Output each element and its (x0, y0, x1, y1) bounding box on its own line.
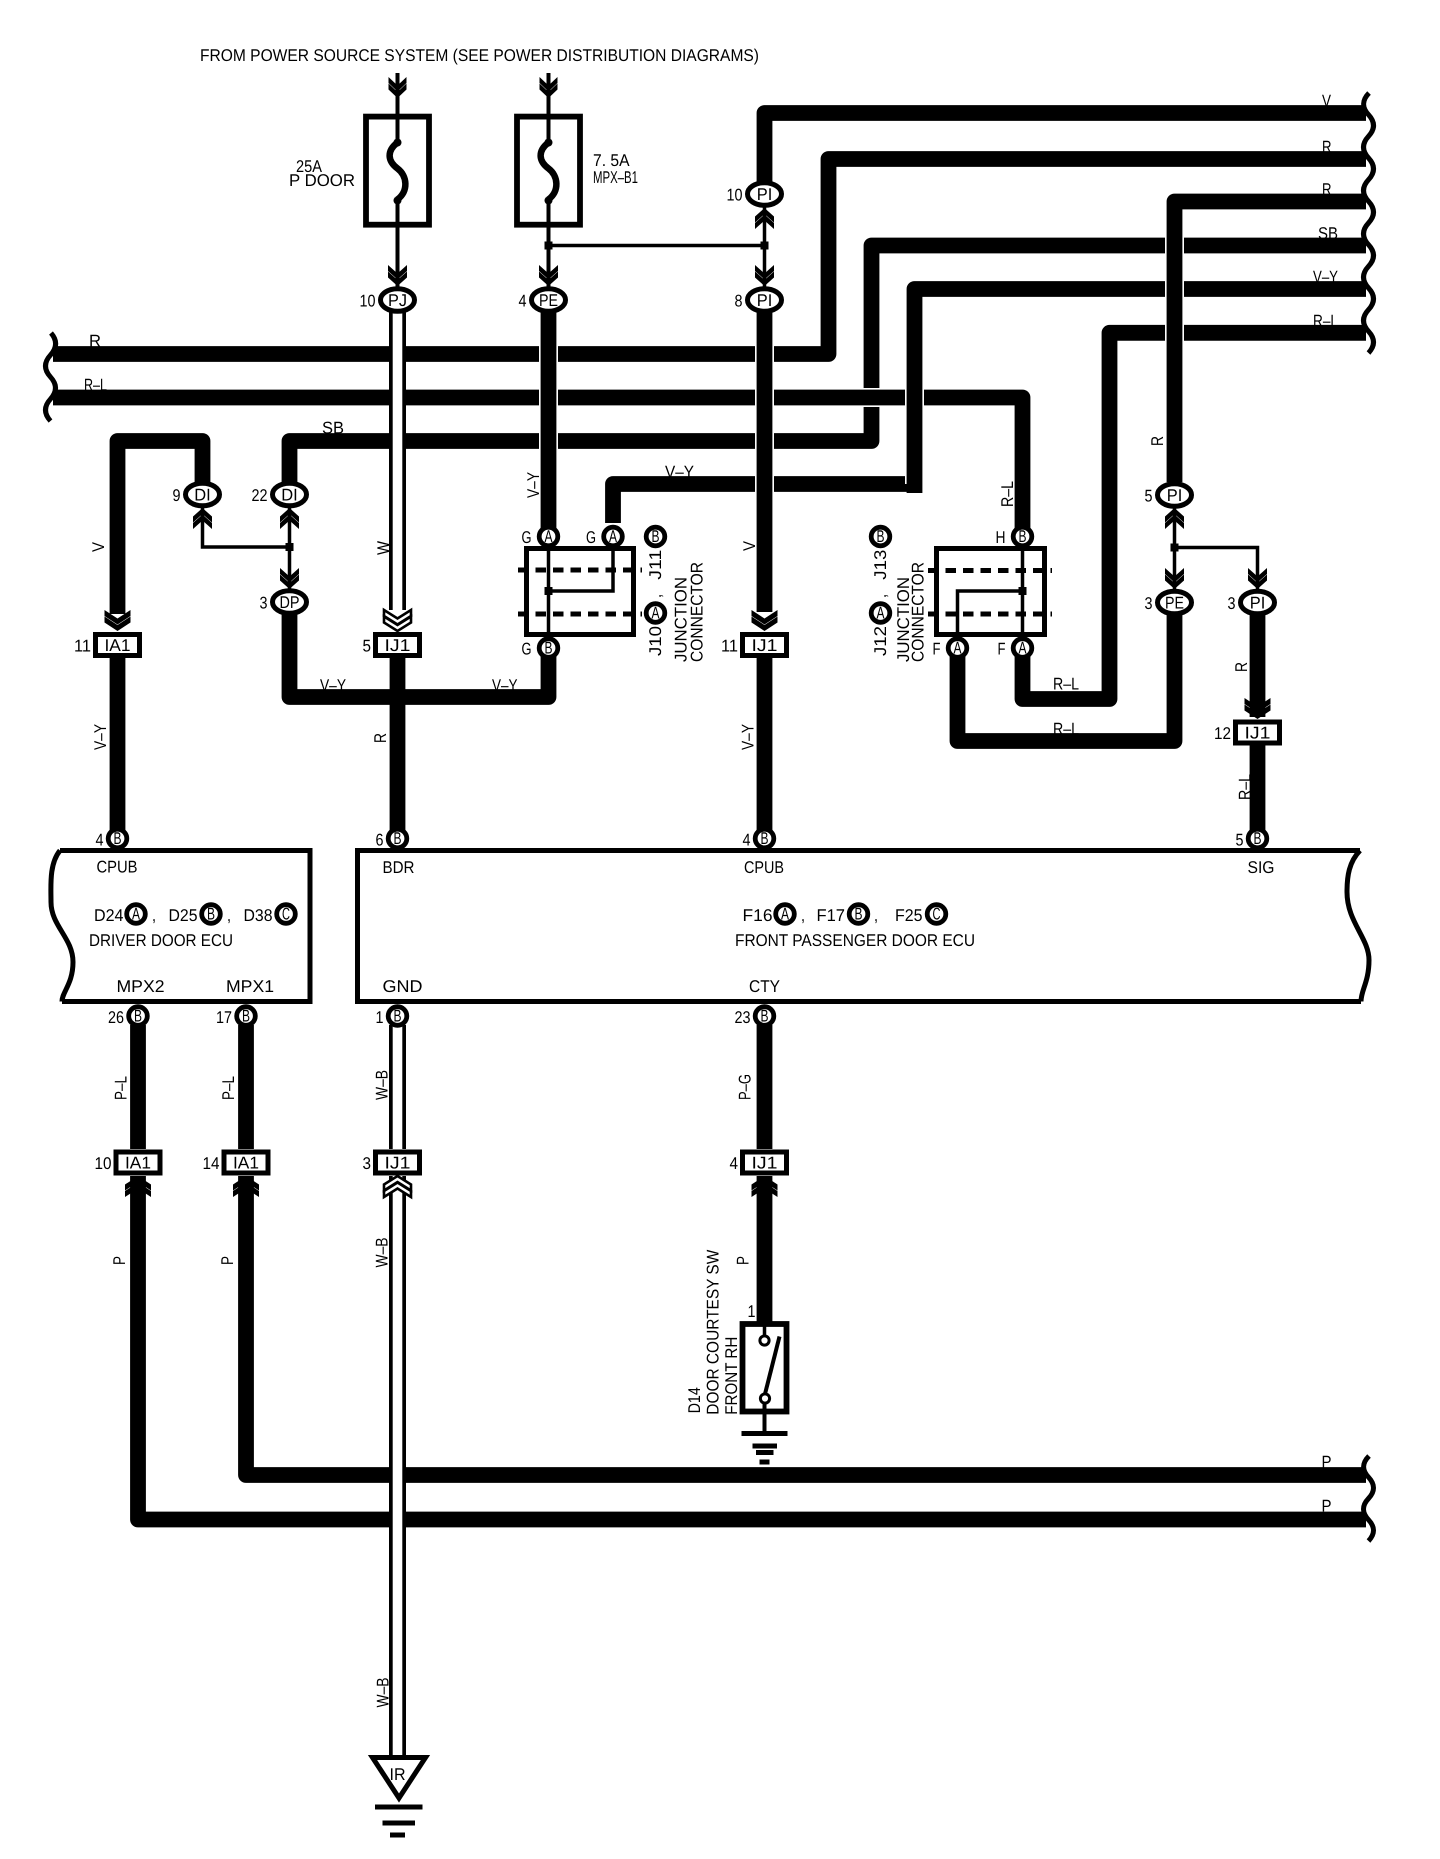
svg-text:SIG: SIG (1248, 858, 1275, 877)
svg-text:R: R (371, 733, 390, 743)
svg-text:B: B (242, 1007, 250, 1026)
svg-text:W–B: W–B (373, 1238, 392, 1268)
FP ECU pin 23-B CTY (755, 1007, 774, 1026)
svg-text:3: 3 (1145, 594, 1153, 613)
svg-text:6: 6 (376, 831, 384, 850)
svg-text:P: P (110, 1256, 129, 1265)
svg-text:A: A (1019, 639, 1027, 658)
svg-text:A: A (609, 527, 617, 546)
junction connector pin G-A (left) (539, 527, 558, 546)
wire: R bus (left edge to top-right squiggle) (53, 159, 1366, 354)
svg-text:10: 10 (360, 292, 376, 311)
fuse 25A P DOOR (366, 117, 429, 225)
svg-text:22: 22 (252, 486, 268, 505)
svg-text:R: R (1322, 138, 1332, 157)
junction connector pin F-A (left) (948, 639, 967, 658)
arrowhead into PI-8 (755, 265, 774, 280)
svg-text:IJ1: IJ1 (1245, 724, 1271, 743)
connector PI pin 3 (1241, 591, 1275, 614)
wire: V-Y net from junction connector pin A2 up to right squiggle (613, 484, 915, 523)
svg-text:IA1: IA1 (125, 1154, 151, 1173)
wire: thin links DI-9 / DI-22 to DP-3 (203, 505, 290, 547)
wire: P from 4-IJ1 down to door courtesy switch (757, 1176, 773, 1324)
arrowhead into 12-IJ1 (1245, 698, 1271, 713)
svg-text:IJ1: IJ1 (385, 1154, 411, 1173)
svg-text:4: 4 (96, 831, 104, 850)
svg-text:,: , (152, 906, 156, 925)
front passenger door ECU torn right edge (1347, 851, 1369, 1002)
svg-text:F: F (933, 640, 941, 659)
svg-text:R–L: R–L (1313, 311, 1338, 330)
svg-text:B: B (207, 905, 215, 924)
junction connector J12/J13 box (937, 549, 1045, 635)
svg-text:,: , (874, 906, 878, 925)
svg-text:V–Y: V–Y (665, 463, 694, 482)
svg-text:R–L: R–L (1236, 774, 1255, 800)
switch lever (765, 1337, 780, 1395)
wire: hollow W-B wire from BDR pin 1-B (GND) through 3-IJ1 to IR ground (389, 1025, 406, 1149)
wire: V net from PI-8 down to 11-IJ1 (755, 310, 774, 612)
svg-text:V–Y: V–Y (492, 676, 518, 695)
wire: P from 14-IA1 down then right to P bus squiggle (246, 1176, 1366, 1475)
wire: V-Y net from DP-3 down, across to G-B pin, stubs to 5-IJ1 and BDR 6-B (290, 610, 549, 697)
arrowhead up out of 14-IA1 (233, 1183, 259, 1198)
junction connector pin H-B (top) (1013, 527, 1032, 546)
svg-text:B: B (1254, 829, 1262, 848)
arrowhead up into PI-5 (1165, 515, 1184, 530)
svg-text:MPX–B1: MPX–B1 (593, 168, 638, 187)
junction connector J12/J13 internal bus (1021, 546, 1025, 637)
junction connector pin F-A (right) (1013, 639, 1032, 658)
svg-text:D25: D25 (169, 906, 198, 925)
svg-text:17: 17 (216, 1008, 232, 1027)
connector PI pin 8 (748, 289, 782, 312)
svg-text:CONNECTOR: CONNECTOR (688, 562, 707, 662)
wire: hollow W wire from PJ-10 down to 5-IJ1 (389, 310, 406, 610)
wire: R-L from 12-IJ1 down to FP door ECU pin 5-B (SIG) (1250, 745, 1266, 833)
svg-text:MPX1: MPX1 (226, 977, 274, 996)
driver ECU pin 26-B MPX2 (129, 1007, 148, 1026)
svg-text:CPUB: CPUB (97, 858, 138, 877)
svg-text:1: 1 (376, 1008, 384, 1027)
svg-text:,: , (871, 594, 890, 598)
svg-text:,: , (801, 906, 805, 925)
svg-text:9: 9 (173, 486, 181, 505)
svg-text:V–Y: V–Y (1313, 268, 1338, 287)
connector PE pin 3 (1158, 591, 1192, 614)
svg-text:P–G: P–G (736, 1074, 755, 1100)
FP ECU pin 4-B CPUB (755, 829, 774, 848)
svg-text:CPUB: CPUB (744, 858, 784, 877)
junction box IA1 pin 14 (224, 1152, 268, 1173)
wire: R from junction down to BDR pin 6-B (390, 697, 406, 833)
svg-text:H: H (996, 528, 1006, 547)
svg-text:B: B (761, 829, 769, 848)
svg-text:12: 12 (1214, 724, 1231, 743)
svg-text:1: 1 (748, 1302, 756, 1321)
svg-text:F: F (998, 640, 1006, 659)
connector PJ pin 10 (381, 289, 415, 312)
svg-text:V–Y: V–Y (320, 676, 346, 695)
switch D14 door courtesy SW front RH box (743, 1324, 787, 1412)
junction connector J12/J13 dashed row 1 (928, 568, 1052, 573)
junction box IJ1 pin 3 (376, 1152, 420, 1173)
svg-text:V–Y: V–Y (524, 472, 543, 498)
svg-text:B: B (652, 527, 660, 546)
svg-text:FROM POWER SOURCE SYSTEM (SEE: FROM POWER SOURCE SYSTEM (SEE POWER DIST… (200, 46, 759, 65)
svg-text:GND: GND (383, 977, 423, 996)
wire: P from 10-IA1 down then right to P bus squiggle (138, 1176, 1366, 1520)
svg-text:CONNECTOR: CONNECTOR (909, 562, 928, 662)
arrowhead into 11-IJ1 (752, 610, 778, 625)
connector DI pin 22 (273, 483, 307, 506)
svg-text:5: 5 (1145, 487, 1153, 506)
bus end torn edge: R / R-L left (46, 333, 56, 421)
svg-text:5: 5 (1236, 831, 1244, 850)
svg-text:A: A (652, 604, 660, 623)
FP ECU pin 5-B SIG (1248, 829, 1267, 848)
svg-text:3: 3 (1228, 594, 1236, 613)
svg-text:B: B (394, 1007, 402, 1026)
svg-text:V: V (89, 541, 108, 552)
svg-text:W: W (374, 541, 393, 555)
bus end torn edge: P P right (1364, 1456, 1374, 1541)
junction connector J10/J11 dashed row 1 (518, 568, 642, 573)
svg-text:B: B (877, 527, 885, 546)
svg-text:PI: PI (1167, 486, 1183, 505)
svg-text:P–L: P–L (112, 1076, 131, 1100)
arrowhead up into DI-22 (280, 515, 299, 530)
node: junction dot below fuse MPX-B1 (545, 242, 553, 250)
svg-text:3: 3 (363, 1154, 372, 1173)
svg-text:P: P (1322, 1497, 1332, 1516)
svg-text:5: 5 (363, 637, 372, 656)
svg-text:J11: J11 (646, 550, 665, 580)
node: junction dot on PI feed (761, 242, 769, 250)
svg-text:IA1: IA1 (105, 636, 131, 655)
svg-text:G: G (522, 528, 532, 547)
label J12 A , J13 B rotated (871, 527, 890, 546)
svg-text:23: 23 (735, 1008, 751, 1027)
svg-text:26: 26 (108, 1008, 124, 1027)
svg-text:SB: SB (1318, 224, 1338, 243)
junction box IJ1 pin 5 (376, 635, 420, 656)
junction box IA1 pin 11 (96, 635, 140, 656)
wire: P-L from driver ECU pin 26-B (MPX2) to 10-IA1 (130, 1025, 146, 1149)
svg-text:C: C (282, 905, 290, 924)
arrowhead up out of 4-IJ1 (752, 1183, 778, 1198)
driver door ECU torn left edge (51, 851, 73, 1002)
wire: thin feed arrows from power source into fuses (396, 73, 400, 116)
connector PE pin 4 (532, 289, 566, 312)
junction connector J12/J13 dashed row 2 (928, 612, 1052, 617)
svg-text:11: 11 (74, 637, 91, 656)
svg-text:PI: PI (757, 185, 773, 204)
arrowhead into 11-IA1 (105, 610, 131, 625)
svg-text:V–Y: V–Y (739, 724, 758, 750)
svg-text:10: 10 (95, 1154, 112, 1173)
junction connector pin G-A (right) (604, 527, 623, 546)
svg-text:8: 8 (735, 292, 743, 311)
svg-text:B: B (761, 1007, 769, 1026)
svg-text:DI: DI (281, 486, 298, 505)
junction box IJ1 pin 12 (1236, 722, 1280, 743)
svg-text:J10: J10 (646, 626, 665, 656)
svg-text:R–L: R–L (84, 376, 107, 395)
wire: P-L from driver ECU pin 17-B (MPX1) to 14-IA1 (238, 1025, 254, 1149)
svg-text:DI: DI (194, 486, 211, 505)
ground bars under IR (375, 1805, 423, 1810)
svg-text:G: G (522, 640, 532, 659)
svg-text:DP: DP (280, 593, 300, 612)
svg-text:IA1: IA1 (233, 1154, 259, 1173)
front passenger door ECU box (358, 851, 1362, 1002)
svg-text:D14: D14 (685, 1387, 704, 1413)
svg-text:,: , (227, 906, 231, 925)
svg-text:PE: PE (539, 291, 558, 310)
driver ECU pin 4-B CPUB (108, 829, 127, 848)
junction connector J10/J11 internal bus (547, 546, 551, 637)
arrowhead: power feed into fuse 25A (389, 77, 407, 92)
wire: R from 3-PI down to 12-IJ1 (1250, 610, 1266, 717)
svg-text:B: B (114, 829, 122, 848)
svg-text:F25: F25 (895, 906, 923, 925)
wire: V loop from DI-9 over to 11-IA1 (118, 441, 203, 614)
label J10 A , J11 B rotated (646, 527, 665, 546)
driver ECU pin 17-B MPX1 (237, 1007, 256, 1026)
svg-text:4: 4 (743, 831, 751, 850)
arrowhead up into DI-9 (193, 515, 212, 530)
connector DP pin 3 (273, 591, 307, 614)
arrowhead into DP-3 (280, 568, 299, 583)
wire: thin link fuse MPX-B1 to PE-4 / PI-10 / PI-8 (547, 228, 551, 295)
svg-text:D38: D38 (244, 906, 273, 925)
arrowhead into PE-3 (1165, 568, 1184, 583)
wire: R net from top-right bus down to 5-PI (1165, 202, 1184, 483)
svg-text:R: R (1148, 436, 1167, 446)
svg-text:B: B (855, 905, 863, 924)
wire: thin links 5-PI to 3-PE and 3-PI (1173, 505, 1177, 598)
svg-text:PJ: PJ (388, 291, 407, 310)
svg-text:IJ1: IJ1 (752, 636, 778, 655)
svg-text:MPX2: MPX2 (117, 977, 165, 996)
svg-text:,: , (646, 594, 665, 598)
svg-text:PI: PI (757, 291, 773, 310)
arrowhead up out of 10-IA1 (125, 1183, 151, 1198)
svg-text:B: B (1019, 527, 1027, 546)
svg-text:4: 4 (730, 1154, 739, 1173)
svg-text:W–B: W–B (374, 1678, 393, 1708)
svg-text:J12: J12 (871, 626, 890, 656)
junction connector J10/J11 box (527, 549, 634, 635)
junction connector pin G-B (bottom) (539, 639, 558, 658)
connector DI pin 9 (186, 483, 220, 506)
svg-text:4: 4 (519, 292, 527, 311)
svg-text:3: 3 (260, 594, 268, 613)
svg-text:A: A (545, 527, 553, 546)
FP ECU pin 1-B GND (388, 1007, 407, 1026)
arrowhead into PI-3 (1248, 568, 1267, 583)
svg-text:P–L: P–L (219, 1076, 238, 1100)
arrowhead (outline) up out of 3-IJ1 on W-B wire (384, 1183, 411, 1198)
wire: R-L net from F-A2 pin down-right-up to right squiggle (1023, 333, 1367, 699)
svg-text:V: V (740, 540, 759, 551)
svg-text:DRIVER DOOR ECU: DRIVER DOOR ECU (89, 931, 233, 950)
connector PI pin 10 (748, 183, 782, 206)
svg-text:IJ1: IJ1 (752, 1154, 778, 1173)
svg-text:A: A (954, 639, 962, 658)
fuse 7.5A MPX-B1 (517, 117, 580, 225)
switch top contact (763, 1324, 767, 1336)
svg-text:R: R (1232, 662, 1251, 672)
wire: V-Y from 11-IA1 down to driver ECU pin 4-B (CPUB) (110, 657, 126, 833)
chassis ground below switch (742, 1431, 788, 1436)
svg-text:P: P (218, 1256, 237, 1265)
junction box IA1 pin 10 (116, 1152, 160, 1173)
junction connector J10/J11 dashed row 2 (518, 612, 642, 617)
svg-text:BDR: BDR (383, 858, 415, 877)
ground IR triangle (373, 1758, 426, 1799)
svg-text:J13: J13 (871, 550, 890, 580)
svg-text:PI: PI (1250, 594, 1266, 613)
arrowhead (outline) into 5-IJ1 from W wire (384, 610, 411, 625)
svg-text:14: 14 (203, 1154, 220, 1173)
arrowhead: power feed into fuse MPX-B1 (540, 77, 558, 92)
svg-text:F17: F17 (817, 906, 846, 925)
driver door ECU box (60, 851, 310, 1002)
svg-text:FRONT RH: FRONT RH (722, 1337, 741, 1415)
bus end torn edge: V R R SB V-Y R-L right (1364, 93, 1374, 353)
node: junction dot below 5-PI (1171, 544, 1179, 552)
svg-text:10: 10 (727, 186, 743, 205)
wire: V-Y from 11-IJ1 down to FP door ECU pin 4-B (CPUB) (757, 657, 773, 833)
connector PI pin 5 (1158, 484, 1192, 507)
svg-text:11: 11 (721, 637, 738, 656)
svg-text:C: C (933, 905, 941, 924)
svg-text:B: B (394, 829, 402, 848)
wire: V net from V bus down to PI-10 (765, 113, 1367, 190)
svg-text:FRONT PASSENGER DOOR ECU: FRONT PASSENGER DOOR ECU (735, 931, 975, 950)
svg-text:A: A (132, 905, 140, 924)
wire: R-L link from 3-PE down-left-up to F-A1 pin (958, 610, 1175, 741)
svg-text:R–L: R–L (1053, 675, 1079, 694)
switch bottom contact (760, 1394, 769, 1403)
wire: V-Y from PE-4 down to junction connector pin A1 (539, 310, 558, 528)
arrowhead into PE-4 (539, 265, 558, 280)
svg-text:PE: PE (1165, 594, 1184, 613)
svg-text:R–L: R–L (1053, 720, 1079, 739)
svg-text:V: V (1322, 92, 1332, 111)
svg-text:A: A (781, 905, 789, 924)
svg-text:DOOR COURTESY SW: DOOR COURTESY SW (704, 1250, 723, 1415)
svg-text:R: R (1322, 180, 1332, 199)
wire: switch to chassis ground (763, 1403, 767, 1434)
svg-text:P: P (734, 1256, 753, 1265)
svg-text:D24: D24 (94, 906, 124, 925)
svg-text:G: G (586, 528, 596, 547)
svg-text:R: R (89, 332, 101, 351)
svg-text:V–Y: V–Y (91, 724, 110, 750)
arrowhead into PJ-10 (388, 265, 407, 280)
svg-text:IR: IR (390, 1765, 406, 1784)
wire: P-G from FP ECU pin 23-B (CTY) to 4-IJ1 (757, 1025, 773, 1149)
svg-text:IJ1: IJ1 (385, 636, 411, 655)
node: junction dot at DI link (286, 543, 294, 551)
svg-text:F16: F16 (743, 906, 773, 925)
wire: SB net from 22-DI elbow up over to right squiggle (290, 246, 1367, 488)
svg-text:P: P (1322, 1453, 1332, 1472)
FP ECU pin 6-B BDR (388, 829, 407, 848)
junction box IJ1 pin 11 (743, 635, 787, 656)
junction box IJ1 pin 4 (743, 1152, 787, 1173)
svg-text:R–L: R–L (998, 481, 1017, 507)
wire: thin link fuse P DOOR to PJ-10 (396, 228, 400, 295)
wire: R-L bus left edge to H-B pin of junction connector J12/J13 (53, 398, 1023, 529)
svg-text:SB: SB (322, 419, 344, 438)
svg-text:CTY: CTY (749, 977, 780, 996)
svg-text:B: B (134, 1007, 142, 1026)
svg-text:B: B (545, 639, 553, 658)
svg-text:A: A (877, 604, 885, 623)
svg-text:W–B: W–B (373, 1070, 392, 1100)
arrowhead up into PI-10 (755, 215, 774, 230)
svg-text:P DOOR: P DOOR (289, 171, 355, 190)
